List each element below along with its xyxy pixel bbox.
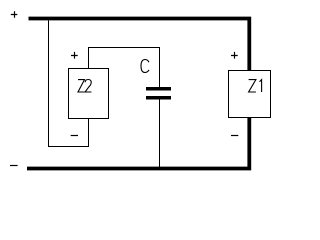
label Z2: [78, 80, 91, 93]
label Z1: [249, 80, 262, 92]
polarity + of Z2: [71, 52, 78, 59]
node - terminal of source: [10, 165, 18, 167]
label C: [141, 60, 149, 73]
wire Z2 top to capacitor top: [89, 48, 160, 88]
polarity + of Z1: [231, 52, 238, 59]
wire Z1 bottom to bottom bus (thick): [27, 118, 249, 169]
impedance Z2 box: [69, 69, 109, 119]
wire left branch to Z2 bottom: [49, 20, 89, 146]
node + terminal of source: [11, 11, 17, 17]
capacitor C plates: [146, 89, 171, 98]
wire top bus (thick): [29, 19, 250, 71]
wire capacitor bottom to bottom bus: [159, 99, 161, 168]
impedance Z1 box: [229, 71, 271, 118]
polarity - of Z2: [71, 135, 78, 137]
polarity - of Z1: [231, 135, 238, 137]
